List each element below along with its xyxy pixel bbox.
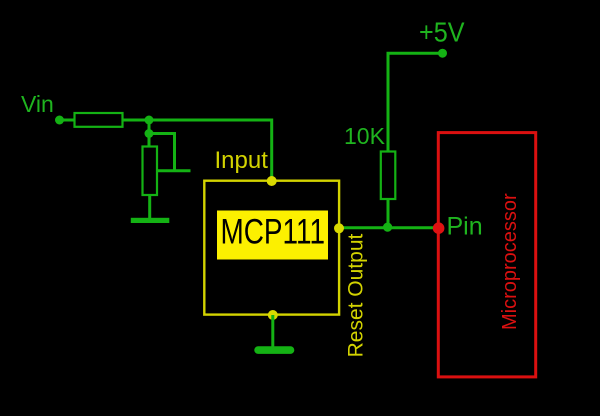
wire chip ground pin to ground (271, 315, 274, 348)
value label MCP111 highlight box (217, 211, 328, 260)
wire R1 to node A (123, 119, 151, 122)
resistor R1 (horizontal, from Vin) (75, 113, 123, 127)
ground (below U1) (254, 346, 294, 354)
wire R2 bottom to ground (148, 195, 151, 219)
svg-text:+5V: +5V (419, 17, 465, 48)
node B junction dot (145, 129, 154, 138)
node pin dot (red) (433, 222, 445, 234)
svg-text:Input: Input (215, 147, 269, 174)
wire +5V to R3 top (388, 53, 443, 152)
node C junction dot (383, 223, 392, 232)
wire R2 wiper link top (149, 134, 175, 171)
wire node A to chip input (149, 120, 272, 181)
wire R2 wiper tap (157, 169, 191, 172)
pin ground dot (bottom) (268, 310, 278, 320)
node A junction dot (145, 116, 154, 125)
node +5V terminal dot (438, 49, 447, 58)
wire node A to node B (148, 120, 151, 147)
svg-text:MCP111: MCP111 (221, 213, 326, 252)
wire Vin dot to R1 (60, 119, 76, 122)
svg-text:Microprocessor: Microprocessor (499, 193, 521, 330)
ground (below R2) (131, 218, 170, 223)
pin input dot (top) (267, 176, 277, 186)
svg-text:Pin: Pin (447, 213, 483, 241)
svg-text:Vin: Vin (21, 91, 54, 117)
resistor R2 (vertical adjustable, to ground) (143, 147, 158, 196)
svg-text:10K: 10K (344, 123, 386, 149)
microprocessor block (438, 133, 535, 377)
pin output dot (right) (334, 223, 344, 233)
resistor R3 (pull-up 10K) (381, 152, 396, 200)
op-amp U1 MCP111 chip body (204, 181, 339, 315)
node Vin terminal dot (55, 116, 64, 125)
wire R3 bottom to node C (387, 199, 390, 228)
wire chip output to microprocessor pin (339, 226, 438, 229)
svg-text:Reset Output: Reset Output (345, 234, 368, 358)
